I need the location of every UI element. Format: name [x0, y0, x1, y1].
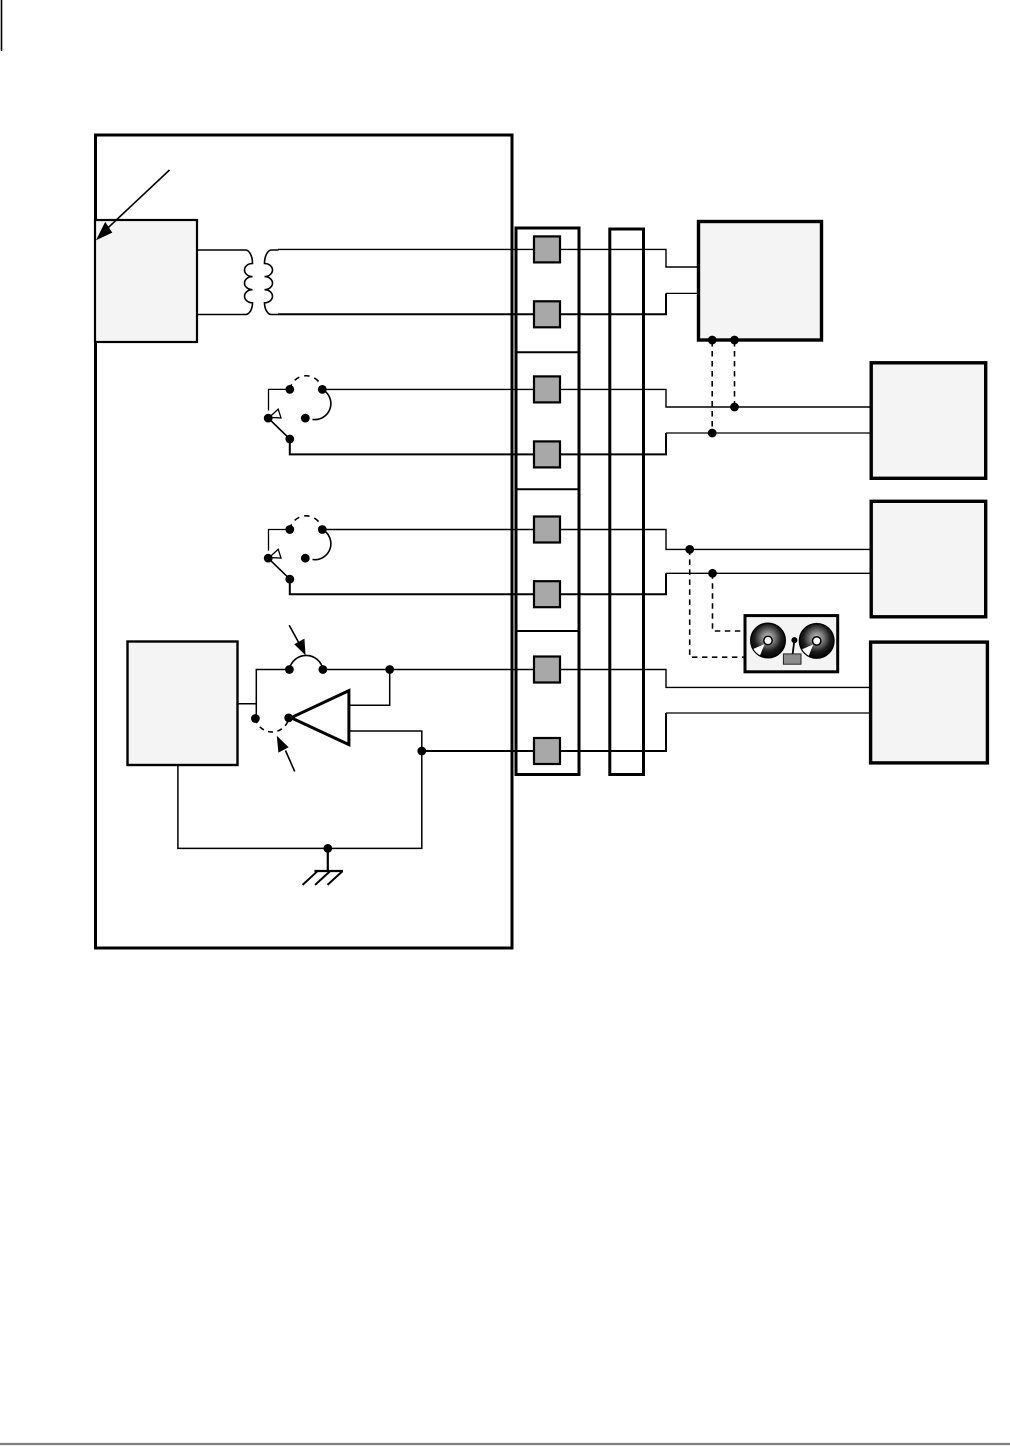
- S2 dashed travel arc: [290, 516, 323, 530]
- line unit box 3: [871, 501, 986, 617]
- S1 dashed travel arc: [290, 376, 323, 390]
- box1 tap node B: [730, 336, 739, 345]
- wire w6: [290, 573, 666, 594]
- S1 feed wire: [269, 389, 290, 410]
- wall jack strip: [610, 229, 644, 775]
- S2 wiper arm: [268, 558, 290, 579]
- TB1 divider 3: [515, 630, 580, 632]
- footer rule: [0, 1443, 1010, 1445]
- dashed tap wire B: [734, 341, 736, 407]
- amplifier output wire: [349, 731, 422, 751]
- wire w5: [322, 530, 870, 550]
- dashed tap wire A: [711, 341, 713, 433]
- speech network box: [128, 642, 238, 766]
- S1 wiper arrowhead: [269, 409, 281, 418]
- terminal 3: [534, 376, 560, 402]
- wire w2 ring: [278, 293, 666, 314]
- line unit box 2: [871, 363, 986, 479]
- hook switch riser: [256, 670, 289, 719]
- ringer box: [95, 220, 197, 342]
- ground node: [323, 844, 332, 853]
- line unit box 4: [871, 642, 988, 763]
- induction coil T1 secondary: [265, 250, 279, 315]
- node on w4: [708, 429, 717, 438]
- hook switch arrow 1: [289, 625, 305, 655]
- TB1 divider 2: [515, 488, 580, 490]
- terminal 1: [534, 236, 560, 262]
- hook junction node: [385, 665, 394, 674]
- dashed recorder wire B: [713, 573, 744, 631]
- wire w1 tip: [278, 249, 699, 267]
- ground return rail: [178, 751, 422, 848]
- terminal block TB1: [516, 228, 579, 775]
- receiver amplifier U1: [291, 691, 349, 745]
- ground symbol: [303, 848, 343, 885]
- ringer pointer arrow: [96, 170, 170, 240]
- speech network feed wire: [238, 703, 257, 705]
- induction coil T1 primary: [197, 250, 253, 315]
- amplifier input link: [349, 670, 390, 706]
- node on w6: [708, 569, 717, 578]
- terminal 7: [534, 657, 560, 683]
- terminal 2: [534, 301, 560, 327]
- wire w3: [322, 389, 870, 407]
- S1 contact dots: [285, 385, 294, 394]
- w8 junction node: [417, 747, 426, 756]
- S1 wiper arm: [268, 418, 290, 439]
- terminal 6: [534, 581, 560, 607]
- hook switch make contact S3a: [285, 655, 327, 673]
- page edge tick: [1, 0, 3, 51]
- terminal 4: [534, 441, 560, 467]
- node on w5: [685, 545, 694, 554]
- wire w7: [323, 670, 869, 688]
- line unit box 1: [699, 222, 822, 341]
- S2 contact arc: [313, 530, 331, 560]
- wire w8: [422, 713, 666, 751]
- S2 feed wire: [269, 530, 290, 551]
- node on w3: [730, 403, 739, 412]
- terminal 8: [534, 738, 560, 764]
- S2 contact dots: [285, 525, 294, 534]
- S2 wiper arrowhead: [269, 549, 281, 558]
- dial pulse contacts S1: [264, 376, 331, 444]
- hook switch arrow 2: [277, 736, 295, 772]
- TB1 divider 1: [515, 351, 580, 353]
- S1 contact arc: [313, 389, 331, 419]
- box1 tap node A: [708, 336, 717, 345]
- tape recorder icon: [745, 616, 838, 672]
- terminal 5: [534, 517, 560, 543]
- dial shunt contacts S2: [264, 516, 331, 584]
- dashed recorder wire A: [690, 549, 744, 657]
- hook switch break contact S3b: [251, 714, 293, 732]
- wire w4: [290, 433, 666, 454]
- telephone set enclosure: [96, 135, 513, 948]
